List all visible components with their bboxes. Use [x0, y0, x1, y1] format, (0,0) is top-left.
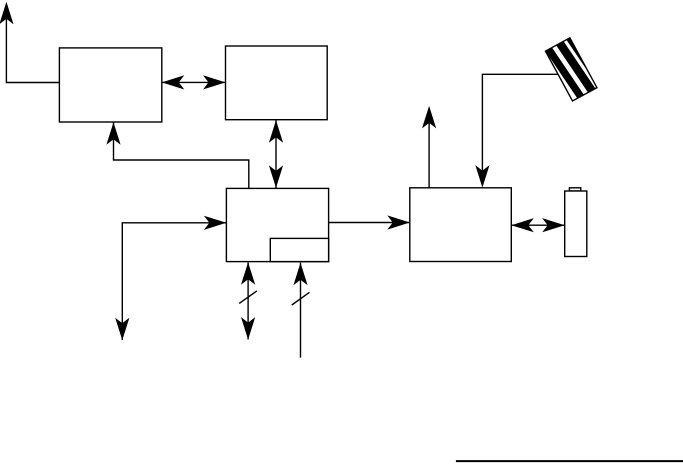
bidirectional arrow between block D and battery [511, 218, 564, 232]
input wire into block C left with right arrowhead and down arrowhead [115, 216, 226, 341]
bidirectional arrow between block A and block B [162, 75, 226, 89]
sub-block inside block C (bottom-right) [270, 238, 328, 261]
up arrow out of block D top [422, 106, 436, 188]
wire: output from block A up-left with arrowhead [0, 2, 59, 83]
bus: up arrow into sub-block with slash [292, 263, 310, 358]
block A (top-left box) [59, 48, 161, 122]
battery terminal tab [569, 188, 580, 191]
block C (center box) [226, 188, 328, 261]
wire from block C top to block A bottom with up arrowhead [106, 122, 248, 188]
bidirectional arrow between block B and block C [269, 120, 283, 189]
wire from solar panel down into block D with down arrowhead [475, 74, 558, 187]
footer rule (bottom-right horizontal line) [456, 460, 683, 462]
block D (right box) [410, 188, 512, 262]
bus: bidirectional arrow below block C with slash [239, 262, 257, 339]
solar panel (tilted hatched rectangle) [543, 30, 606, 104]
battery body [565, 191, 587, 257]
wire from block C to block D with right arrowhead [329, 215, 410, 229]
block B (top-middle box) [226, 46, 328, 120]
